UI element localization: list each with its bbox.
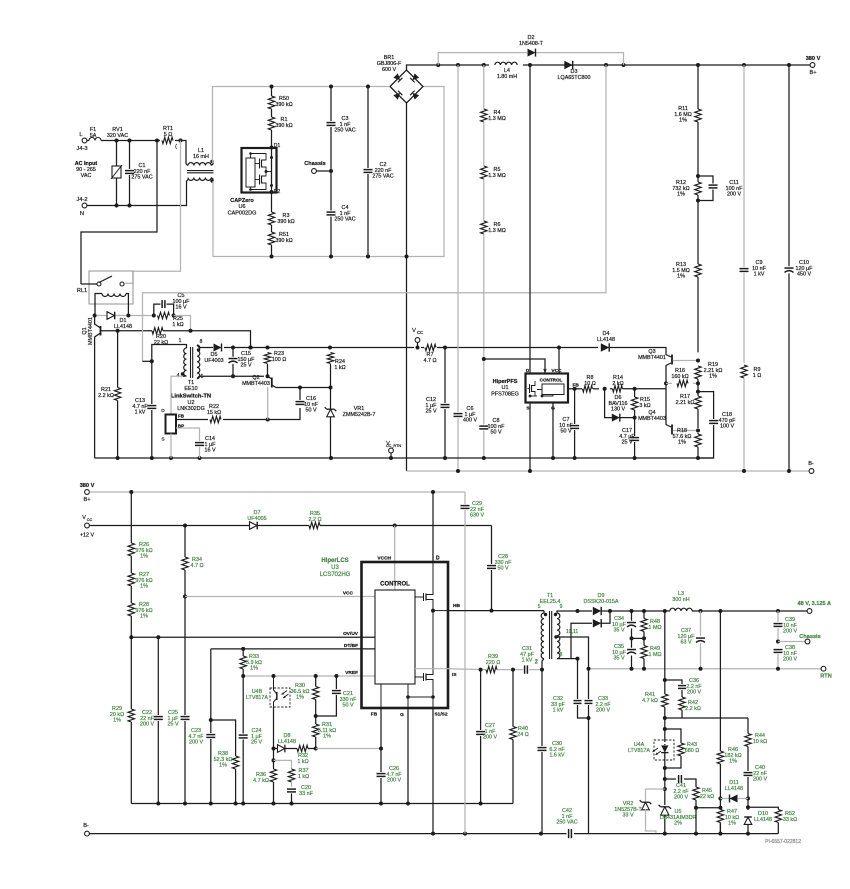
capacitor C20 <box>287 785 314 804</box>
wire main 380V rail <box>436 63 810 67</box>
svg-text:1 kV: 1 kV <box>553 708 564 714</box>
resistor R21 <box>98 331 121 458</box>
IC U2 LinkSwitch-TN <box>161 408 184 443</box>
wire PFS ground rail <box>95 456 714 460</box>
svg-text:1%: 1% <box>677 192 685 198</box>
capacitor C39 <box>773 611 798 644</box>
wire R32 to FB pin <box>316 747 383 751</box>
wire charge line to C13 node <box>143 359 154 363</box>
capacitor C35 <box>612 638 636 668</box>
svg-text:N: N <box>80 211 84 217</box>
capacitor C15 <box>228 348 255 379</box>
svg-text:VAC: VAC <box>81 173 92 179</box>
svg-text:25 V: 25 V <box>251 740 262 746</box>
svg-text:CONTROL: CONTROL <box>540 378 563 383</box>
node 48V output terminal <box>798 601 832 613</box>
capacitor C26 <box>376 766 402 804</box>
resistor R45 <box>692 787 714 810</box>
svg-text:200 V: 200 V <box>674 795 688 801</box>
resistor R33 <box>240 649 262 804</box>
wire R6 to V pin / C8 <box>482 234 486 458</box>
resistor R6 <box>480 179 506 234</box>
wire FB line <box>568 387 666 391</box>
wire U2 source <box>170 434 172 459</box>
svg-text:450 V: 450 V <box>797 272 811 278</box>
svg-text:D: D <box>526 368 530 374</box>
svg-text:16 V: 16 V <box>204 448 215 454</box>
svg-text:35 V: 35 V <box>613 628 624 634</box>
svg-text:380 V: 380 V <box>806 56 821 62</box>
svg-text:200 V: 200 V <box>727 192 741 198</box>
svg-text:25 V: 25 V <box>425 409 436 415</box>
resistor R37 <box>274 760 310 787</box>
wire R45 to R47 node <box>694 806 722 836</box>
svg-text:1 kV: 1 kV <box>754 272 765 278</box>
capacitor C30 <box>537 670 565 834</box>
wire BP pin / capacitor C14 <box>176 428 216 458</box>
diode D6 branch <box>605 389 635 422</box>
svg-text:CAP002DG: CAP002DG <box>228 210 257 216</box>
IC U6 CAPZero box <box>228 148 277 216</box>
svg-text:LCS702HG: LCS702HG <box>320 572 351 578</box>
svg-text:600 V: 600 V <box>382 67 396 73</box>
svg-text:V: V <box>412 328 416 334</box>
svg-text:15 kΩ: 15 kΩ <box>207 410 221 416</box>
capacitor C36 <box>665 678 703 697</box>
capacitor C38 <box>773 645 798 669</box>
capacitor C27 <box>476 670 498 804</box>
capacitor C33 <box>584 669 611 834</box>
wire feedback tap <box>663 611 667 694</box>
resistor R34 <box>181 526 203 804</box>
svg-text:CONTROL: CONTROL <box>380 582 410 588</box>
svg-text:1 kΩ: 1 kΩ <box>298 774 309 780</box>
svg-text:2.21 kΩ: 2.21 kΩ <box>676 400 695 406</box>
node Vcc terminal <box>412 328 423 348</box>
svg-text:400 V: 400 V <box>463 418 477 424</box>
svg-text:RTN: RTN <box>820 674 832 680</box>
diode D1 <box>107 312 132 331</box>
svg-text:200 V: 200 V <box>783 657 797 663</box>
capacitor C18 <box>698 392 736 458</box>
diode D11 <box>720 780 748 803</box>
wire VCC pin stub <box>558 348 560 374</box>
svg-text:33 kΩ: 33 kΩ <box>783 817 797 823</box>
svg-text:24 Ω: 24 Ω <box>517 732 529 738</box>
wire RTN rail <box>587 667 822 671</box>
wire secondary ground rail <box>574 833 778 835</box>
svg-text:2: 2 <box>535 660 538 666</box>
svg-text:25 V: 25 V <box>621 440 632 446</box>
svg-text:1%: 1% <box>113 718 121 724</box>
node B- terminal <box>808 461 814 473</box>
svg-text:CC: CC <box>87 518 93 522</box>
resistor R7 <box>423 344 436 364</box>
node Vcc_RTN <box>386 441 402 458</box>
svg-text:4.7 kΩ: 4.7 kΩ <box>253 778 269 784</box>
capacitor C41 <box>663 768 696 805</box>
svg-text:1%: 1% <box>709 374 717 380</box>
zener VR1 <box>325 388 376 459</box>
diode D5 <box>204 344 223 365</box>
svg-text:1.3 MΩ: 1.3 MΩ <box>488 228 506 234</box>
svg-text:U6: U6 <box>238 204 245 210</box>
svg-text:33 V: 33 V <box>622 813 633 819</box>
svg-text:33 nF: 33 nF <box>299 791 313 797</box>
svg-text:LNK302DG: LNK302DG <box>177 406 205 412</box>
svg-text:DSSK20-015A: DSSK20-015A <box>583 599 618 605</box>
label PI number <box>765 839 801 845</box>
resistor R20 <box>152 327 168 346</box>
wire Vcc rail (PFS) <box>199 346 598 350</box>
svg-text:50 V: 50 V <box>342 703 353 709</box>
node B+ lower terminal <box>80 483 95 503</box>
capacitor C9 <box>739 65 767 363</box>
resistor R46 <box>717 611 742 834</box>
svg-text:9: 9 <box>560 604 563 610</box>
svg-text:1 MΩ: 1 MΩ <box>648 652 661 658</box>
svg-text:1 kΩ: 1 kΩ <box>172 322 183 328</box>
capacitor C25 <box>167 710 190 728</box>
wire VCC pin line <box>185 591 375 597</box>
svg-text:10 kΩ: 10 kΩ <box>753 739 767 745</box>
transistor Q3 MMBT4401 <box>638 349 698 365</box>
svg-text:UF4003: UF4003 <box>204 358 223 364</box>
svg-text:1.3 MΩ: 1.3 MΩ <box>488 116 506 122</box>
node J4-3 (AC line input L) <box>76 132 87 152</box>
svg-text:100 V: 100 V <box>720 424 734 430</box>
wire secondary pin8 <box>557 609 592 659</box>
svg-text:200 V: 200 V <box>387 778 401 784</box>
capacitor C4 <box>326 205 356 223</box>
svg-text:16 mH: 16 mH <box>193 154 209 160</box>
svg-text:25 V: 25 V <box>240 363 251 369</box>
diode D2 bypass <box>438 35 623 65</box>
svg-text:EE10: EE10 <box>184 386 197 392</box>
diode D7 <box>247 510 266 529</box>
wire B- bottom rail <box>90 832 567 836</box>
resistor R1 <box>268 109 293 130</box>
svg-text:RL1: RL1 <box>77 288 87 294</box>
capacitor C37 <box>678 611 706 669</box>
optocoupler U4A LTV817A <box>628 724 674 768</box>
svg-text:2 kΩ: 2 kΩ <box>612 381 623 387</box>
wire AC line top <box>87 139 186 165</box>
svg-text:J4-2: J4-2 <box>76 197 87 203</box>
bridge rectifier BR1 <box>377 55 423 103</box>
resistor R31 <box>312 716 336 751</box>
svg-text:EEL25.4: EEL25.4 <box>540 599 561 605</box>
resistor R27 <box>128 556 153 590</box>
svg-text:LL4148: LL4148 <box>754 817 772 823</box>
svg-text:8: 8 <box>200 339 203 345</box>
svg-text:PI-6557-022812: PI-6557-022812 <box>765 839 801 845</box>
svg-text:LQA65TC800: LQA65TC800 <box>558 75 591 81</box>
resistor R49 <box>640 638 661 668</box>
resistor R15 <box>631 389 651 420</box>
svg-text:1.80 mH: 1.80 mH <box>497 74 517 80</box>
resistor R29 <box>110 635 135 803</box>
svg-text:250 VAC: 250 VAC <box>334 217 355 223</box>
svg-text:U3: U3 <box>331 565 339 571</box>
svg-text:22 kΩ: 22 kΩ <box>700 794 714 800</box>
wire D pin line (LCS) <box>433 492 440 562</box>
svg-text:HB: HB <box>453 603 460 609</box>
svg-text:S1/S2: S1/S2 <box>434 712 447 718</box>
svg-text:D1: D1 <box>120 318 127 324</box>
svg-text:2.2 kΩ: 2.2 kΩ <box>98 393 114 399</box>
capacitor C16 <box>295 386 319 414</box>
wire FB line / resistor R22 <box>176 404 300 423</box>
resistor R19 <box>694 359 722 397</box>
transformer T1 EE10 <box>152 338 211 412</box>
svg-text:MMBT4401: MMBT4401 <box>88 317 94 345</box>
svg-text:1%: 1% <box>679 118 687 124</box>
svg-text:3 kΩ: 3 kΩ <box>639 403 650 409</box>
capacitor C32 <box>551 657 588 718</box>
svg-text:MMBT4401: MMBT4401 <box>638 355 666 361</box>
node J4-2 (AC neutral input N) <box>76 197 87 217</box>
wire Q1 base line <box>104 329 191 333</box>
svg-text:B-: B- <box>808 461 814 467</box>
svg-text:4.7 Ω: 4.7 Ω <box>190 563 203 569</box>
svg-text:320 VAC: 320 VAC <box>107 133 128 139</box>
resistor R17 <box>676 394 702 433</box>
wire V pin line <box>484 359 545 374</box>
svg-text:8: 8 <box>560 652 563 658</box>
varistor RV1 <box>107 127 128 206</box>
wire divider node to R44 <box>665 717 748 719</box>
capacitor C3 <box>326 87 356 257</box>
svg-text:200 V: 200 V <box>189 740 203 746</box>
resistor R41 <box>642 692 668 724</box>
zener VR2 <box>614 787 667 834</box>
resistor R24 <box>300 353 346 390</box>
svg-text:FB: FB <box>178 414 185 419</box>
capacitor C28 <box>487 526 513 613</box>
svg-text:LL4148: LL4148 <box>725 786 743 792</box>
wire T1 pin5 line <box>199 374 270 378</box>
wire Vcc lower rail <box>90 524 492 528</box>
svg-text:48 V, 3.125 A: 48 V, 3.125 A <box>798 601 832 607</box>
wire opto to D8 <box>272 707 276 762</box>
resistor R44 <box>744 718 767 771</box>
resistor R28 <box>128 586 153 637</box>
svg-text:DT/BF: DT/BF <box>344 643 358 649</box>
resistor R25 <box>158 312 184 328</box>
wire S pin <box>529 403 531 472</box>
svg-text:4.7 kΩ: 4.7 kΩ <box>642 698 658 704</box>
transformer T1 EEL25.4 <box>535 593 578 670</box>
svg-text:VCC: VCC <box>343 591 354 597</box>
svg-text:1 Ω: 1 Ω <box>753 373 762 379</box>
svg-text:630 V: 630 V <box>470 513 484 519</box>
svg-text:35 V: 35 V <box>613 656 624 662</box>
diode D3 <box>558 61 591 81</box>
optocoupler U4B LTV817A <box>246 676 290 707</box>
svg-text:390 kΩ: 390 kΩ <box>275 102 292 108</box>
resistor R42 <box>678 697 701 718</box>
svg-text:B-: B- <box>83 823 89 829</box>
wire RT1-to-relay (gray) <box>125 141 181 284</box>
capacitor C13 <box>132 361 156 458</box>
capacitor C34 <box>612 611 636 640</box>
capacitor C6 <box>453 65 477 471</box>
resistor R38 <box>211 720 239 804</box>
svg-text:200 V: 200 V <box>140 722 154 728</box>
resistor R39 <box>486 654 501 673</box>
diode D10 <box>744 811 772 836</box>
capacitor C1 <box>125 141 153 206</box>
svg-text:VREF: VREF <box>345 670 358 676</box>
wire OV/UV line <box>131 631 375 637</box>
svg-text:CC: CC <box>417 330 423 335</box>
diode D9 (dual) DSSK20-015A <box>578 593 632 628</box>
svg-text:1%: 1% <box>140 554 148 560</box>
svg-text:J4-3: J4-3 <box>76 146 87 152</box>
svg-text:1%: 1% <box>250 666 258 672</box>
capacitor C31 <box>520 646 538 674</box>
svg-text:U1: U1 <box>501 385 508 391</box>
resistor R52 <box>748 807 797 833</box>
svg-text:300 nH: 300 nH <box>672 597 689 603</box>
wire B- rail (gray) <box>407 469 810 473</box>
capacitor C17 <box>619 418 639 460</box>
wire S1/S2 pin down <box>432 708 434 834</box>
svg-text:10 Ω: 10 Ω <box>584 381 596 387</box>
resistor R5 <box>480 122 506 179</box>
resistor R13 <box>672 262 701 352</box>
svg-text:10,11: 10,11 <box>566 629 578 635</box>
capacitor C11 <box>698 176 743 201</box>
svg-text:5 Ω: 5 Ω <box>164 132 173 138</box>
svg-text:OV/UV: OV/UV <box>343 631 359 637</box>
node Chassis (primary) <box>304 161 333 173</box>
capacitor C24 <box>238 728 262 746</box>
resistor RT1 (thermistor) <box>162 126 177 150</box>
wire C29 branch <box>460 492 485 834</box>
wire base line to Vcc rail <box>191 331 253 350</box>
svg-text:250 VAC: 250 VAC <box>334 128 355 134</box>
wire X-cap gray loop (bottom rail) <box>213 87 444 259</box>
capacitor C40 <box>743 765 768 810</box>
transistor Q2 MMBT4403 <box>242 375 300 420</box>
svg-text:5: 5 <box>538 604 541 610</box>
wire IS line <box>448 668 544 672</box>
capacitor C12 <box>425 348 450 459</box>
relay RL1 <box>77 271 133 316</box>
diode D8 <box>274 733 297 752</box>
wire HB line <box>448 610 544 612</box>
wire DT/BF line <box>211 643 375 720</box>
svg-text:25 V: 25 V <box>167 722 178 728</box>
svg-text:+12 V: +12 V <box>80 533 95 539</box>
resistor R43 <box>663 729 699 770</box>
svg-text:200 V: 200 V <box>483 735 497 741</box>
wire G pin down <box>407 708 409 804</box>
resistor R23 <box>264 351 286 376</box>
svg-text:IS: IS <box>452 672 457 678</box>
svg-text:1%: 1% <box>678 440 686 446</box>
inductor L1 (common-mode choke) <box>186 148 214 183</box>
svg-text:390 kΩ: 390 kΩ <box>275 238 292 244</box>
resistor R4 <box>480 65 506 122</box>
wire relay coil / D1 line <box>93 314 156 318</box>
capacitor C5 (parallel R25) <box>154 293 190 316</box>
wire FB pin down <box>380 708 382 772</box>
svg-text:200 V: 200 V <box>687 690 701 696</box>
svg-text:S: S <box>161 437 164 443</box>
capacitor C21 <box>316 676 357 716</box>
svg-text:250 VAC: 250 VAC <box>556 820 577 826</box>
resistor R26 chain <box>128 492 153 560</box>
svg-text:G: G <box>400 712 404 718</box>
node Chassis (secondary) <box>778 634 821 644</box>
svg-text:VCCH: VCCH <box>377 556 391 562</box>
svg-text:50 V: 50 V <box>560 429 571 435</box>
resistor R18 <box>673 428 702 458</box>
svg-text:16 V: 16 V <box>175 305 186 311</box>
svg-text:200 V: 200 V <box>596 708 610 714</box>
svg-text:CC_RTN: CC_RTN <box>386 444 402 448</box>
wire D4 to Q3/FB node <box>609 348 671 390</box>
transistor Q4 MMBT4403 <box>638 389 698 435</box>
svg-text:LTV817A: LTV817A <box>246 695 268 701</box>
wire secondary-side control ground rail <box>131 802 513 806</box>
svg-text:390 kΩ: 390 kΩ <box>275 123 292 129</box>
svg-text:100 Ω: 100 Ω <box>272 357 287 363</box>
svg-text:ZMM5242B-7: ZMM5242B-7 <box>343 412 376 418</box>
capacitor C22 <box>140 635 163 803</box>
svg-text:LL4148: LL4148 <box>597 337 615 343</box>
svg-text:200 V: 200 V <box>783 629 797 635</box>
svg-text:LTV817A: LTV817A <box>628 748 650 754</box>
svg-text:50 V: 50 V <box>497 566 508 572</box>
svg-text:1.3 MΩ: 1.3 MΩ <box>488 173 506 179</box>
svg-text:B+: B+ <box>810 70 817 76</box>
label AC Input <box>75 161 98 179</box>
IC U1 HiperPFS <box>491 368 579 412</box>
resistor R11 <box>674 65 701 124</box>
svg-text:1%: 1% <box>729 759 737 765</box>
svg-text:1 kV: 1 kV <box>135 410 146 416</box>
wire output rail <box>630 609 808 613</box>
wire secondary tap 10,11 <box>554 629 588 669</box>
svg-text:1%: 1% <box>323 734 331 740</box>
svg-text:CAPZero: CAPZero <box>230 198 254 204</box>
capacitor C8 <box>479 418 505 436</box>
svg-text:Chassis: Chassis <box>304 161 325 167</box>
svg-text:1%: 1% <box>728 821 736 827</box>
resistor R16 <box>666 368 698 387</box>
svg-text:1 kV: 1 kV <box>522 658 533 664</box>
node B+ 380V <box>806 56 821 76</box>
wire opto branch R36 <box>253 760 277 803</box>
capacitor C42 (Y-cap in B- rail) <box>556 808 577 839</box>
svg-text:UF4005: UF4005 <box>247 516 266 522</box>
inductor L3 <box>670 591 692 611</box>
inductor L4 <box>495 61 517 80</box>
wire line-to-relay (black) <box>81 141 157 285</box>
fuse F1 <box>89 127 101 141</box>
svg-text:1%: 1% <box>296 695 304 701</box>
wire 380V lower rail <box>90 490 466 494</box>
svg-text:63 V: 63 V <box>680 640 691 646</box>
wire D pin line <box>529 65 531 374</box>
svg-text:VCC: VCC <box>551 368 562 374</box>
capacitor C23 <box>188 718 215 804</box>
svg-text:130 V: 130 V <box>611 407 625 413</box>
